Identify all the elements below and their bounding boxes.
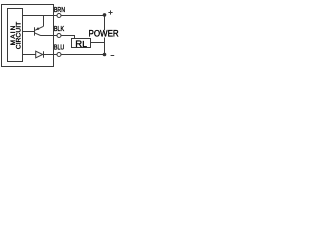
diode D1 triangle [36, 51, 43, 58]
terminal circle BLK [57, 34, 61, 38]
svg-text:CIRCUIT: CIRCUIT [16, 22, 23, 50]
terminal circle BRN [57, 14, 61, 18]
node + junction dot [103, 13, 107, 17]
wire BLK to load [61, 36, 75, 39]
wire BRN to power + [61, 15, 105, 17]
wire BLU to power - [61, 54, 105, 56]
wire BLU to terminal [44, 54, 58, 56]
transistor Q1 emitter feed wire [43, 16, 45, 27]
node - junction dot [103, 53, 107, 57]
outer sensor housing box [2, 5, 54, 67]
transistor Q1 emitter arrowhead [35, 27, 39, 30]
white backing for POWER label [88, 30, 120, 38]
transistor Q1 collector diagonal [35, 33, 41, 36]
svg-text:BLK: BLK [54, 24, 64, 33]
main circuit box [8, 9, 23, 62]
label + terminal [108, 10, 112, 14]
wire power rail vertical [104, 16, 106, 55]
svg-text:BRN: BRN [54, 5, 65, 14]
diode D1 cathode bar [43, 51, 45, 58]
label - terminal [111, 55, 115, 57]
load RL box [72, 39, 91, 48]
wire RL to power rail [91, 42, 105, 44]
transistor Q1 base bar [34, 27, 36, 35]
svg-text:L: L [82, 39, 87, 49]
svg-text:POWER: POWER [89, 29, 120, 39]
wire BLK horizontal [41, 35, 58, 37]
wire base lead [23, 31, 35, 33]
svg-text:BLU: BLU [54, 43, 64, 52]
svg-text:R: R [75, 39, 82, 50]
transistor Q1 emitter diagonal [35, 26, 44, 30]
terminal circle BLU [57, 53, 61, 57]
wire BLU from circuit [23, 54, 36, 56]
wire BRN horizontal [23, 15, 58, 17]
